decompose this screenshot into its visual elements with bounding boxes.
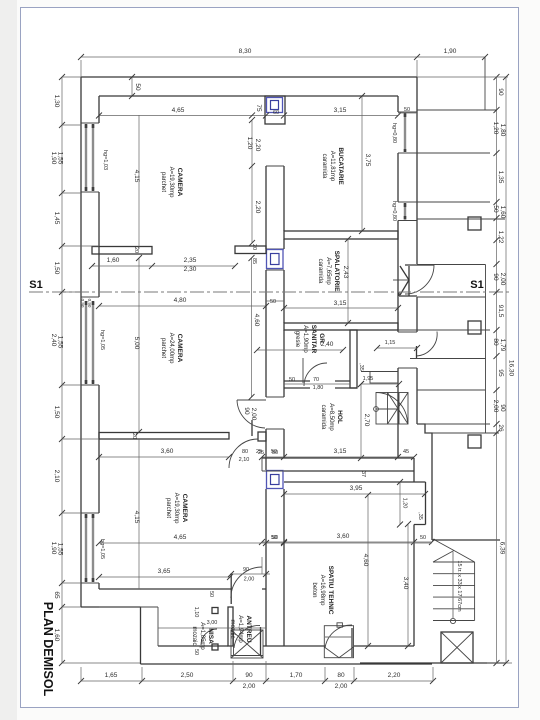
exterior wall: right upper inner face x=398: [397, 96, 399, 458]
room label gr sanitar: [294, 325, 325, 354]
svg-text:4,65: 4,65: [172, 107, 185, 114]
dim 4,15 camera19: [138, 115, 140, 249]
dim 2,40 gr sanitar: [257, 349, 343, 351]
room label nisa: [191, 622, 214, 650]
svg-text:0,90: 0,90: [87, 299, 92, 308]
svg-text:20: 20: [251, 244, 257, 250]
dim 3,15 spalatorie y=308: [284, 307, 398, 309]
terrace edge top: [484, 57, 486, 110]
shaft S1a blue box: [267, 98, 283, 113]
svg-text:1,70: 1,70: [290, 672, 303, 679]
shaft S1a wall stub: [265, 96, 285, 124]
svg-text:parchet: parchet: [160, 338, 166, 358]
dim 4,65 / 50 / 3,60 y=543: [99, 542, 432, 544]
wall stub at P2/central junction: [258, 432, 266, 441]
svg-text:2,00: 2,00: [499, 273, 506, 286]
svg-text:95: 95: [497, 369, 504, 377]
room label spalatorie: [317, 251, 340, 292]
exterior wall: right upper outer face x=417: [416, 77, 418, 264]
svg-text:1,45: 1,45: [53, 212, 60, 225]
room label camera 19,30 top: [160, 167, 183, 199]
svg-text:2,70: 2,70: [363, 414, 370, 427]
wall spalatorie/hol y=323: [284, 323, 398, 330]
svg-text:A=1,90mp: A=1,90mp: [302, 325, 308, 353]
svg-text:80: 80: [492, 338, 499, 346]
dim 5,00 camera24: [138, 258, 140, 432]
svg-text:1,20: 1,20: [402, 498, 408, 509]
svg-text:A=19,30mp: A=19,30mp: [168, 167, 174, 199]
svg-text:1,55: 1,55: [57, 336, 64, 349]
SPATIU TEHNIC right inner face x=414: [414, 458, 426, 646]
svg-text:1,80: 1,80: [313, 385, 324, 391]
svg-text:3,60: 3,60: [337, 533, 350, 540]
svg-text:hg=1,05: hg=1,05: [99, 330, 105, 350]
svg-text:1,10: 1,10: [193, 607, 199, 618]
svg-text:85: 85: [251, 258, 257, 264]
window caps left wall: [81, 123, 99, 583]
dim chain 1,20 2,20 at x=252: [251, 120, 253, 243]
svg-text:65: 65: [53, 591, 60, 599]
svg-text:caramida: caramida: [317, 259, 323, 284]
svg-text:80: 80: [242, 449, 248, 455]
svg-text:1,55: 1,55: [57, 543, 64, 556]
svg-text:2,00: 2,00: [244, 577, 255, 583]
svg-text:CAMERA: CAMERA: [181, 494, 188, 523]
dim 3,40 spatiu vert: [407, 524, 409, 646]
svg-text:4,80: 4,80: [174, 297, 187, 304]
svg-text:parchet: parchet: [165, 498, 171, 518]
window caps right wall: [398, 112, 417, 221]
svg-text:2,20: 2,20: [388, 672, 401, 679]
right side step out to stair porch: [417, 424, 432, 540]
bottom wall outer face y=664: [141, 663, 433, 665]
svg-text:S1: S1: [29, 279, 42, 291]
svg-text:,35: ,35: [417, 512, 423, 520]
window W2 glazing: [86, 302, 93, 383]
exterior stair bottom-right: edges: [360, 540, 506, 663]
svg-text:beton: beton: [311, 582, 317, 597]
dim 3,15 / 45 hol y=457: [262, 456, 414, 458]
stair treads: [433, 562, 475, 621]
svg-text:A=11,81mp: A=11,81mp: [329, 151, 335, 182]
room label bucatarie: [321, 147, 344, 185]
svg-text:6,39: 6,39: [499, 542, 506, 555]
svg-text:80: 80: [337, 672, 345, 679]
dim 2,70 hol: [360, 384, 362, 458]
dim 50 wall top-left: [131, 77, 133, 96]
svg-text:20: 20: [131, 433, 137, 439]
svg-text:SANITAR: SANITAR: [310, 325, 317, 354]
svg-text:5,00: 5,00: [133, 337, 140, 350]
window W5 glazing hg=0,80: [404, 204, 406, 219]
door D-P2 swing arc: [229, 439, 258, 468]
svg-text:ANTREU: ANTREU: [245, 615, 252, 642]
window W3 glazing: [86, 515, 93, 581]
door D2 swing arc: [231, 567, 262, 598]
svg-text:mozaic: mozaic: [229, 619, 235, 638]
svg-text:1,60: 1,60: [499, 206, 506, 219]
svg-text:50: 50: [208, 591, 214, 597]
dim 3,60 camera19b: [99, 456, 229, 458]
dim 1,60 / 2,35 / 2,30 near P1: [92, 265, 235, 267]
svg-text:NISA: NISA: [207, 628, 214, 644]
dim 50 central wall: [266, 300, 284, 302]
exterior wall: top outer face y=77: [81, 76, 417, 78]
svg-text:1,80: 1,80: [499, 124, 506, 137]
svg-text:90: 90: [497, 88, 504, 96]
room label camera 24: [160, 333, 183, 365]
bottom-left step walls: [81, 607, 141, 664]
exterior wall: top inner face y=96: [99, 95, 398, 97]
dim 1,20 / ,35 step: [399, 482, 401, 525]
entrance doorway stair-break symbol: [400, 266, 409, 295]
dim 4,60 at central wall: [251, 258, 253, 397]
partition P1 stub left (camera19/camera24): [92, 247, 152, 255]
light well box 1 (antreu steps): [231, 630, 263, 658]
svg-text:0,90: 0,90: [80, 299, 85, 308]
svg-text:1,50: 1,50: [53, 406, 60, 419]
svg-text:CAMERA: CAMERA: [176, 168, 183, 197]
svg-text:1,55: 1,55: [57, 152, 64, 165]
svg-text:4,60: 4,60: [253, 314, 260, 327]
svg-text:3,60: 3,60: [161, 448, 174, 455]
svg-text:2,50: 2,50: [181, 672, 194, 679]
window W4 glazing hg=0,80: [404, 114, 406, 152]
right wall step: HOL door opening region x=417: [416, 297, 418, 424]
svg-text:hg=1,03: hg=1,03: [102, 150, 108, 170]
entrance door leaf + lintel: [405, 265, 434, 296]
wall stub below entrance y=296: [399, 292, 417, 296]
svg-text:2,00: 2,00: [243, 683, 256, 690]
svg-text:75: 75: [255, 104, 262, 112]
svg-text:A=19,30mp: A=19,30mp: [173, 493, 179, 525]
svg-text:1,90: 1,90: [50, 152, 57, 165]
svg-text:3,00: 3,00: [207, 620, 218, 626]
svg-text:90: 90: [243, 567, 249, 573]
svg-text:50: 50: [193, 649, 199, 655]
partition P2 camera24/camera19b y=432: [99, 433, 229, 440]
svg-text:4,60: 4,60: [362, 554, 369, 567]
door D2 camera19b->antreu leaf: [230, 574, 232, 604]
svg-text:CAMERA: CAMERA: [176, 334, 183, 363]
shaft S3 blue box: [267, 471, 284, 489]
svg-text:37: 37: [360, 471, 366, 477]
svg-text:1,95: 1,95: [363, 376, 374, 382]
svg-text:3,95: 3,95: [350, 485, 363, 492]
room label antreu: [229, 615, 252, 643]
svg-text:S1: S1: [470, 279, 483, 291]
interior steps + door fan at hol/spatiu: [376, 393, 408, 425]
svg-text:3,65: 3,65: [158, 568, 171, 575]
dim 1,65 bottom left: [80, 680, 82, 682]
terrace lines upper right: [398, 110, 505, 433]
svg-text:1,90: 1,90: [50, 542, 57, 555]
svg-text:BUCATARIE: BUCATARIE: [337, 147, 344, 185]
svg-text:2,20: 2,20: [254, 139, 261, 152]
svg-text:2,30: 2,30: [184, 266, 197, 273]
svg-text:26: 26: [497, 424, 504, 432]
dim 3,00 nisa: [158, 627, 266, 629]
svg-text:2,20: 2,20: [254, 201, 261, 214]
dim 4,65 / 3,15 y=115.5: [99, 115, 398, 117]
svg-text:3,75: 3,75: [364, 154, 371, 167]
svg-text:HOL: HOL: [336, 410, 343, 424]
svg-text:4,15: 4,15: [133, 170, 140, 183]
svg-text:caramida: caramida: [321, 154, 327, 179]
svg-text:2,43: 2,43: [342, 266, 349, 279]
svg-text:1,20: 1,20: [492, 122, 499, 135]
svg-text:hg=0,80: hg=0,80: [391, 201, 397, 221]
porch columns right side: [468, 217, 481, 230]
svg-text:,35: ,35: [358, 363, 364, 371]
svg-text:gresie: gresie: [294, 331, 300, 348]
dim 4,15 camera19b: [138, 439, 140, 589]
svg-text:1,15: 1,15: [385, 340, 396, 346]
svg-text:90: 90: [499, 404, 506, 412]
svg-text:90: 90: [245, 672, 253, 679]
svg-text:2,35: 2,35: [184, 257, 197, 264]
svg-text:70: 70: [313, 377, 319, 383]
dim 3,65 camera19b: [99, 576, 230, 578]
svg-text:A=7,65mp: A=7,65mp: [325, 257, 331, 285]
nisa door arc: [201, 629, 217, 645]
svg-text:91,5: 91,5: [497, 305, 504, 318]
dim 90 2,00 door D2: [230, 573, 270, 575]
svg-text:3,15: 3,15: [334, 107, 347, 114]
svg-text:1,22: 1,22: [497, 231, 504, 244]
svg-text:50: 50: [270, 299, 276, 305]
svg-text:50: 50: [272, 535, 278, 541]
svg-text:50: 50: [289, 377, 295, 383]
dim 3,95 spatiu tehnic: [284, 493, 425, 495]
svg-text:3,15: 3,15: [334, 300, 347, 307]
svg-text:90: 90: [243, 407, 250, 415]
dim 4,80 camera24: [99, 305, 266, 307]
svg-text:3,40: 3,40: [402, 577, 409, 590]
room label spatiu tehnic: [311, 566, 334, 615]
svg-text:1,30: 1,30: [53, 95, 60, 108]
svg-text:50: 50: [271, 449, 277, 455]
door D1 central wall swing arc: [237, 400, 265, 428]
svg-text:hg=1,05: hg=1,05: [99, 539, 105, 559]
svg-text:1,90: 1,90: [444, 48, 457, 55]
gr.sanitar bottom wall + door opening: [284, 381, 357, 388]
svg-text:GR.: GR.: [318, 333, 325, 345]
exterior wall: left outer face x=81: [80, 77, 82, 607]
right dim chain x=496.5: [496, 77, 498, 663]
svg-text:1,50: 1,50: [53, 262, 60, 275]
svg-text:8,30: 8,30: [239, 48, 252, 55]
shaft S2 blue box: [267, 250, 284, 269]
svg-text:mozaic: mozaic: [191, 626, 197, 645]
stair break diagonals: [433, 539, 475, 562]
svg-text:2,10: 2,10: [239, 457, 250, 463]
svg-text:A=1,94mp: A=1,94mp: [237, 615, 243, 643]
stair rail circle: [450, 618, 455, 623]
gr.sanitar door arc: [304, 363, 327, 386]
svg-text:2,10: 2,10: [53, 470, 60, 483]
partition P1 stub right: [235, 246, 266, 254]
svg-text:2,40: 2,40: [50, 334, 57, 347]
svg-text:caramida: caramida: [320, 405, 326, 430]
svg-text:1,35: 1,35: [497, 171, 504, 184]
dim 1,95 hol: [361, 383, 399, 385]
svg-text:4,15: 4,15: [133, 511, 140, 524]
central wall right face x=284: [283, 166, 285, 646]
svg-text:1,65: 1,65: [105, 672, 118, 679]
svg-text:hg=0,80: hg=0,80: [391, 123, 397, 143]
svg-text:3,15: 3,15: [334, 448, 347, 455]
svg-text:50: 50: [134, 83, 141, 91]
section line S1-S1: [29, 291, 512, 293]
svg-text:1,20: 1,20: [246, 137, 253, 150]
spatiu tehnic door arc (bottom): [325, 625, 352, 648]
svg-text:60: 60: [273, 110, 279, 116]
svg-text:parchet: parchet: [160, 172, 166, 192]
HOL exterior door caps: [398, 332, 417, 368]
central wall opening caps: [266, 166, 284, 429]
top dim chain y=57 (8,30 / 1,90): [81, 56, 485, 58]
svg-text:SPATIU TEHNIC: SPATIU TEHNIC: [327, 566, 334, 615]
room label hol: [320, 403, 343, 431]
svg-text:25: 25: [256, 449, 262, 455]
svg-text:A=24,00mp: A=24,00mp: [168, 333, 174, 365]
dim 1,20 porch: [403, 481, 405, 483]
hol/spatiu tehnic wall y=458: [262, 458, 426, 482]
window W1 glazing: [86, 125, 93, 190]
dim 50 wall top-right: [398, 112, 417, 114]
svg-text:90: 90: [492, 273, 499, 281]
exterior wall: left inner face x=99 (gaps at windows): [98, 96, 100, 589]
svg-text:A=16,98mp: A=16,98mp: [319, 575, 325, 607]
svg-text:2,00: 2,00: [335, 683, 348, 690]
central wall left face x=266: [265, 166, 267, 646]
svg-text:2,00: 2,00: [250, 408, 257, 421]
svg-text:50: 50: [492, 205, 499, 213]
svg-text:15 tr. x 33 x 17,67cm: 15 tr. x 33 x 17,67cm: [456, 560, 462, 611]
svg-text:2,00: 2,00: [492, 400, 499, 413]
dim 1,15 hol door: [377, 347, 417, 349]
svg-text:1,79: 1,79: [499, 339, 506, 352]
room label camera 19,30 bottom: [165, 493, 188, 525]
svg-text:1,60: 1,60: [107, 257, 120, 264]
niche rect right of gr sanitar: [370, 372, 398, 384]
antreu left wall x=228: [228, 607, 233, 646]
partition bucatarie/spalatorie y=231: [284, 231, 398, 239]
svg-text:4,65: 4,65: [174, 534, 187, 541]
svg-text:16,30: 16,30: [508, 360, 515, 377]
entrance door swing arc: [405, 265, 434, 294]
right overall chain x=506 (16,30): [505, 77, 507, 663]
dims gr sanitar door 50 70 1,80: [284, 383, 350, 385]
gr.sanitar right wall: [350, 330, 357, 388]
left dim chain x=62: [61, 77, 63, 663]
svg-text:50: 50: [404, 107, 410, 113]
svg-text:A=1,85mp: A=1,85mp: [199, 622, 205, 650]
dim 3,75 bucatarie: [361, 96, 363, 231]
bottom dim chain y=681: [81, 680, 433, 682]
svg-text:PLAN DEMISOL: PLAN DEMISOL: [41, 602, 55, 697]
stair side edge: [474, 562, 476, 621]
svg-text:45: 45: [403, 449, 409, 455]
svg-text:20: 20: [133, 247, 139, 253]
dim 3,60 / 50 spatiu: [262, 541, 432, 543]
svg-text:SPALATORIE: SPALATORIE: [333, 251, 340, 292]
bottom wall inner face y=646: [158, 645, 414, 647]
svg-text:50: 50: [420, 535, 426, 541]
nisa posts: [212, 608, 218, 614]
light well box 3 (porch landing): [441, 632, 473, 663]
dim 2,43 spalatorie: [347, 239, 349, 323]
HOL exterior door swing arc: [416, 332, 437, 357]
svg-text:A=8,50mp: A=8,50mp: [328, 403, 334, 431]
dim 4,60 spatiu vert: [367, 495, 369, 646]
light well box 2 (spatiu tehnic steps): [324, 626, 353, 658]
